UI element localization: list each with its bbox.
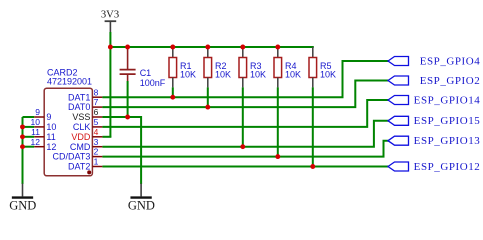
- svg-text:3: 3: [94, 137, 99, 147]
- svg-text:10K: 10K: [215, 69, 231, 79]
- svg-text:11: 11: [31, 127, 40, 137]
- junction rail/R4: [275, 45, 280, 50]
- ground GND (left): [9, 184, 36, 213]
- junction rail/R1: [170, 45, 175, 50]
- svg-text:472192001: 472192001: [47, 76, 92, 86]
- svg-text:5: 5: [94, 117, 99, 127]
- svg-text:2: 2: [94, 147, 99, 157]
- resistor R5 10K: [309, 47, 317, 87]
- wire R3 bottom to row: [242, 87, 244, 146]
- svg-text:8: 8: [94, 87, 99, 97]
- port ESP_GPIO14: [388, 94, 480, 106]
- wire pin 11 to ground bus: [23, 136, 35, 138]
- pin 7 DAT0: [68, 97, 102, 112]
- svg-text:4: 4: [94, 127, 99, 137]
- pin 2 CD/DAT3: [53, 147, 103, 162]
- pin 10 (left): [31, 117, 57, 132]
- svg-text:ESP_GPIO15: ESP_GPIO15: [414, 115, 481, 127]
- pin 3 CMD: [70, 137, 103, 152]
- wire pin 12 to ground bus: [23, 146, 35, 148]
- resistor R1 10K: [169, 47, 177, 87]
- svg-text:12: 12: [31, 137, 41, 147]
- pin 12 (left): [31, 137, 57, 152]
- port ESP_GPIO2: [388, 75, 480, 87]
- svg-text:10: 10: [31, 117, 41, 127]
- svg-text:10K: 10K: [320, 69, 336, 79]
- wire C1 bottom to VSS net: [127, 81, 129, 117]
- svg-text:11: 11: [46, 132, 55, 142]
- svg-text:DAT0: DAT0: [68, 102, 90, 112]
- port ESP_GPIO12: [388, 161, 480, 173]
- svg-text:CD/DAT3: CD/DAT3: [53, 152, 91, 162]
- power symbol 3V3: [101, 9, 119, 32]
- pin 6 VSS: [72, 107, 102, 122]
- svg-text:10K: 10K: [285, 69, 301, 79]
- ground GND (center): [128, 184, 155, 213]
- svg-text:10: 10: [46, 122, 56, 132]
- svg-text:CLK: CLK: [73, 122, 91, 132]
- junction R3/pin row: [240, 144, 245, 149]
- wire VSS pin 6 to center ground: [102, 117, 141, 184]
- junction ground bus/pin 10: [20, 124, 25, 129]
- pin 5 CLK: [73, 117, 103, 132]
- component CARD2 body: [44, 88, 92, 176]
- wire pin 3 row to port ESP_GPIO15: [102, 121, 389, 147]
- svg-text:10K: 10K: [250, 69, 266, 79]
- svg-text:DAT2: DAT2: [68, 162, 90, 172]
- pin 9 (left): [34, 107, 51, 122]
- pin 11 (left): [31, 127, 56, 142]
- wire pin 8 row to port ESP_GPIO4: [102, 61, 389, 97]
- wire R2 bottom to row: [207, 87, 209, 107]
- capacitor C1 100nF: [120, 47, 136, 81]
- junction ground bus/pin 11: [20, 134, 25, 139]
- svg-text:1: 1: [94, 157, 99, 167]
- svg-text:6: 6: [94, 107, 99, 117]
- svg-text:ESP_GPIO4: ESP_GPIO4: [420, 55, 481, 67]
- wire 3V3 stem: [109, 32, 111, 47]
- junction R4/pin row: [275, 154, 280, 159]
- svg-text:GND: GND: [128, 198, 155, 212]
- svg-text:ESP_GPIO12: ESP_GPIO12: [414, 161, 481, 173]
- svg-text:C1: C1: [140, 68, 152, 78]
- wire pin 9 to ground bus: [23, 116, 35, 118]
- svg-text:100nF: 100nF: [140, 78, 166, 88]
- wire pin 10 to ground bus: [23, 126, 35, 128]
- junction rail/R3: [240, 45, 245, 50]
- wire pin 2 row to port ESP_GPIO13: [102, 141, 389, 157]
- wire pin 7 row to port ESP_GPIO2: [102, 81, 389, 108]
- pin 8 DAT1: [68, 87, 102, 102]
- port ESP_GPIO13: [388, 135, 480, 147]
- svg-text:GND: GND: [9, 198, 36, 212]
- svg-text:ESP_GPIO13: ESP_GPIO13: [414, 135, 481, 147]
- svg-text:ESP_GPIO2: ESP_GPIO2: [420, 75, 481, 87]
- junction R5/pin row: [310, 164, 315, 169]
- resistor R4 10K: [274, 47, 282, 87]
- junction rail/R2: [205, 45, 210, 50]
- junction rail/C1 top: [125, 45, 130, 50]
- wire R4 bottom to row: [277, 87, 279, 156]
- svg-text:9: 9: [35, 107, 40, 117]
- svg-text:VSS: VSS: [72, 112, 90, 122]
- junction rail/3V3/VDD: [108, 45, 113, 50]
- svg-text:7: 7: [94, 97, 99, 107]
- wire VDD horizontal to pin 4: [102, 136, 111, 138]
- resistor R2 10K: [204, 47, 212, 87]
- junction ground bus/pin 12: [20, 144, 25, 149]
- svg-text:ESP_GPIO14: ESP_GPIO14: [414, 94, 481, 106]
- svg-text:CMD: CMD: [70, 142, 91, 152]
- wire pin 5 row to port ESP_GPIO14: [102, 100, 389, 127]
- port ESP_GPIO4: [388, 55, 480, 67]
- junction C1/VSS row: [125, 115, 130, 120]
- junction R2/pin row: [205, 105, 210, 110]
- resistor R3 10K: [239, 47, 247, 87]
- wire left ground bus vertical: [22, 117, 24, 184]
- svg-text:VDD: VDD: [71, 132, 91, 142]
- svg-text:DAT1: DAT1: [68, 92, 90, 102]
- CARD2 corner marker dot: [87, 170, 91, 174]
- wire R5 bottom to row: [312, 87, 314, 166]
- junction R1/pin row: [170, 95, 175, 100]
- wire 3V3 rail: [109, 46, 313, 48]
- wire R1 bottom to row: [172, 87, 174, 97]
- wire pin 1 row to port ESP_GPIO12: [102, 166, 389, 168]
- wire VDD riser (rail to pin 4): [109, 47, 111, 137]
- pin 4 VDD: [71, 127, 102, 142]
- svg-text:3V3: 3V3: [101, 9, 119, 20]
- svg-text:12: 12: [46, 142, 56, 152]
- port ESP_GPIO15: [388, 115, 480, 127]
- svg-text:10K: 10K: [180, 69, 196, 79]
- svg-text:9: 9: [46, 112, 51, 122]
- pin 1 DAT2: [68, 157, 102, 172]
